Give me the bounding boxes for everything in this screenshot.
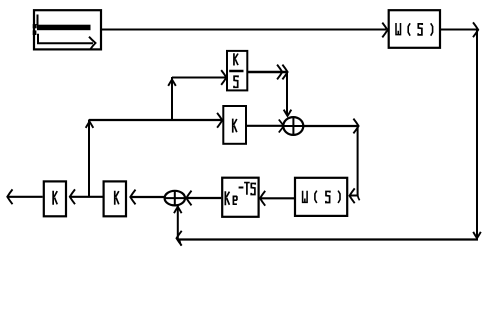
wire: S1 output to corner	[303, 119, 359, 134]
wire: S2 output into block K2	[130, 190, 164, 205]
wire: K2 output into block K1 (junction node A tap)	[70, 189, 103, 204]
wire: W(S) top output to right corner	[441, 22, 478, 37]
block Ke^-TS (delay element)	[222, 178, 258, 217]
wire: bottom feedback horizontal	[177, 231, 479, 246]
wire: tap rise from bottom row to middle row (node A)	[86, 120, 94, 197]
wire: W(S) bottom output into Ke^-TS	[260, 191, 294, 206]
wire: feedback rise into summing junction S2	[174, 206, 182, 246]
wire: right vertical feedback run	[473, 30, 481, 240]
block K (middle gain)	[223, 106, 246, 144]
wire: K/S output to corner with double chevron	[247, 65, 287, 80]
block W(S) top (forward path)	[389, 10, 440, 48]
block K/S (integral gain)	[227, 51, 247, 91]
wire: drop into summing junction S1 top	[284, 72, 292, 116]
wire: system output to the left	[7, 189, 42, 204]
wire: branch into block K/S	[172, 70, 226, 85]
wire: drop into W(S) bottom right side	[350, 126, 360, 203]
wire: Ke^-TS output into summing junction S2	[186, 191, 221, 206]
summing junction S2	[165, 191, 185, 206]
input source block (signal generator)	[33, 10, 101, 49]
wire: source to W(S) top	[101, 23, 388, 38]
wire: middle row into block K	[89, 113, 222, 128]
block W(S) bottom (plant)	[295, 178, 347, 216]
block K1 (output gain 1)	[44, 181, 66, 216]
wire: block K output into summing junction S1	[246, 120, 286, 133]
summing junction S1	[283, 117, 303, 136]
wire: branch rise to K/S row	[168, 77, 176, 120]
block K2 (output gain 2)	[104, 181, 126, 216]
